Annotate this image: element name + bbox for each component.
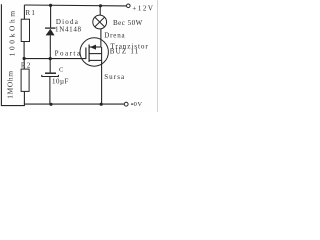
svg-text:C: C: [59, 67, 64, 74]
svg-text:Bec 50W: Bec 50W: [113, 19, 143, 27]
svg-text:Drena: Drena: [104, 31, 125, 39]
svg-text:BUZ 11: BUZ 11: [110, 48, 140, 56]
svg-text:+12V: +12V: [132, 4, 154, 12]
svg-text:Poarta: Poarta: [55, 50, 82, 58]
svg-text:10µF: 10µF: [52, 78, 69, 86]
svg-text:100kOhm: 100kOhm: [8, 8, 17, 56]
svg-text:V: V: [137, 101, 142, 108]
svg-text:0: 0: [134, 101, 137, 108]
svg-text:1: 1: [31, 9, 35, 17]
svg-text:1N4148: 1N4148: [55, 25, 82, 33]
svg-text:Sursa: Sursa: [104, 73, 125, 81]
svg-text:R: R: [26, 9, 31, 17]
svg-text:2: 2: [27, 61, 31, 69]
svg-text:R: R: [21, 61, 26, 69]
svg-text:1MOhm: 1MOhm: [5, 70, 14, 99]
